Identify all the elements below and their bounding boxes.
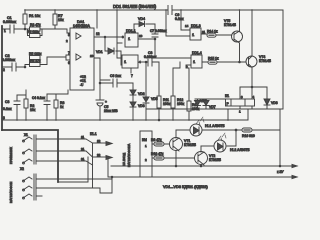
diode VD8 xyxy=(264,87,278,109)
svg-text:КТ814Б: КТ814Б xyxy=(224,23,237,27)
svg-text:VD7: VD7 xyxy=(209,105,216,109)
diode VD7 xyxy=(203,99,216,109)
relay K1 xyxy=(225,94,255,114)
svg-text:C7 0.068мк: C7 0.068мк xyxy=(150,29,167,33)
svg-text:10к: 10к xyxy=(30,108,36,112)
svg-text:DD1.4: DD1.4 xyxy=(192,51,202,55)
svg-text:C3: C3 xyxy=(5,100,9,104)
svg-text:0.1мк: 0.1мк xyxy=(3,107,12,111)
svg-text:VD2: VD2 xyxy=(138,92,145,96)
svg-text:1: 1 xyxy=(4,29,6,33)
svg-text:+: + xyxy=(105,100,107,104)
gate DD1.4 xyxy=(186,51,202,69)
svg-text:к ЗУ: к ЗУ xyxy=(277,170,284,174)
svg-text:VD8: VD8 xyxy=(271,101,278,105)
svg-text:0.1мк: 0.1мк xyxy=(175,17,184,21)
wire relay bottom rail xyxy=(146,10,283,109)
gate DD1.1 xyxy=(122,29,143,47)
capacitor C4 xyxy=(32,94,50,120)
svg-text:VD4: VD4 xyxy=(138,17,145,21)
transistor VT4 xyxy=(246,10,272,87)
resistor R5 xyxy=(29,52,42,65)
capacitor C8 xyxy=(144,51,159,66)
svg-text:R6 47к: R6 47к xyxy=(30,59,41,63)
connector X1 bar xyxy=(34,135,36,164)
diode VD1 xyxy=(96,37,122,65)
resistor R15 xyxy=(202,57,249,65)
resistor R16 xyxy=(242,109,280,138)
gate DD1.3 xyxy=(166,10,205,40)
svg-text:10: 10 xyxy=(90,54,94,58)
svg-text:ПРИЕМНИК: ПРИЕМНИК xyxy=(9,147,13,164)
relay contacts K1.1 xyxy=(81,132,97,165)
node E xyxy=(99,82,101,84)
svg-text:HL1 АЛ307Б: HL1 АЛ307Б xyxy=(205,124,225,128)
resistor R1 xyxy=(23,10,41,29)
wire DD1.2 output xyxy=(138,61,147,63)
wire DD1.4 input feed xyxy=(155,57,186,59)
svg-text:11: 11 xyxy=(202,30,205,34)
svg-text:R4 100к: R4 100к xyxy=(27,30,40,34)
LED HL1 xyxy=(190,117,225,136)
jack X1 plug 1 xyxy=(23,137,33,142)
label tape input vertical xyxy=(122,144,131,167)
svg-text:11: 11 xyxy=(81,135,84,139)
resistor R3 xyxy=(25,23,43,31)
diode VD5 xyxy=(143,61,158,120)
svg-text:К1.1: К1.1 xyxy=(90,132,97,136)
resistor R14 xyxy=(201,30,232,38)
wire C6 to diode chain xyxy=(132,83,134,88)
svg-text:Х1: Х1 xyxy=(24,133,28,137)
svg-text:14: 14 xyxy=(185,24,189,28)
jack X2 plug 3 xyxy=(23,194,33,199)
node junction dots rail xyxy=(24,9,253,11)
connector X2 bar xyxy=(34,174,36,200)
svg-text:0.068мк: 0.068мк xyxy=(3,20,16,24)
wire top supply rail xyxy=(25,9,283,11)
diode VD2 xyxy=(130,88,145,100)
arrow output 2 xyxy=(292,175,297,178)
node F xyxy=(111,176,113,178)
capacitor C6 xyxy=(100,74,133,87)
transistor VT2 xyxy=(195,146,222,166)
wire DA1 output xyxy=(94,36,122,38)
svg-text:КТ315Б: КТ315Б xyxy=(209,158,222,162)
wire DA1 pin10 to C6 xyxy=(94,58,110,83)
transistor VT1 xyxy=(170,130,197,166)
svg-text:HL2 АЛ307Б: HL2 АЛ307Б xyxy=(230,148,250,152)
svg-text:22: 22 xyxy=(97,153,101,157)
LED HL2 xyxy=(214,133,250,152)
wire DA1 top to rail xyxy=(96,10,98,28)
wire arrow 12 xyxy=(93,139,113,146)
wire VT4 to relay xyxy=(240,87,267,99)
wire X2 shield return xyxy=(36,143,112,193)
capacitor C5 xyxy=(96,83,118,120)
resistor R12 xyxy=(171,62,185,120)
wire jack6 stub xyxy=(36,195,42,197)
svg-text:VD1...VD8 КД521 (КД522): VD1...VD8 КД521 (КД522) xyxy=(163,185,209,189)
svg-text:ВМ: ВМ xyxy=(142,138,147,142)
svg-text:R16 910: R16 910 xyxy=(242,134,255,138)
svg-text:100к: 100к xyxy=(177,102,185,106)
svg-text:DD1.3: DD1.3 xyxy=(191,24,201,28)
capacitor C2 xyxy=(2,54,25,72)
svg-text:Х2: Х2 xyxy=(20,167,24,171)
svg-text:100к: 100к xyxy=(163,102,171,106)
svg-text:КТ315Б: КТ315Б xyxy=(184,143,197,147)
wire HL1 row xyxy=(176,129,242,131)
wire rail drop to gates xyxy=(117,10,122,58)
wire DD1.1 output xyxy=(138,38,155,40)
svg-text:1к: 1к xyxy=(60,105,64,109)
svg-text:22мк 16В: 22мк 16В xyxy=(104,109,118,113)
node B xyxy=(24,66,26,68)
resistor R7 xyxy=(53,10,64,29)
svg-text:12: 12 xyxy=(97,139,101,143)
node C xyxy=(104,36,106,38)
svg-text:R1 10к: R1 10к xyxy=(29,14,41,18)
wire thick ground run xyxy=(2,130,58,182)
svg-text:R3 47к: R3 47к xyxy=(30,23,41,27)
wire relay to bus xyxy=(228,109,248,120)
jack X1 plug 2 xyxy=(23,149,33,154)
svg-text:МАГНИТОФОНА: МАГНИТОФОНА xyxy=(127,144,131,167)
svg-text:C4 0.1мк: C4 0.1мк xyxy=(32,96,46,100)
svg-text:31: 31 xyxy=(81,157,85,161)
resistor R11 xyxy=(157,62,171,121)
wire VT2 collector to HL2 xyxy=(201,145,214,147)
svg-text:КТ814Б: КТ814Б xyxy=(259,59,272,63)
gate DD1.2 xyxy=(122,55,141,78)
svg-text:R14 1к: R14 1к xyxy=(207,30,218,34)
resistor R13 xyxy=(186,68,200,120)
resistor R9 xyxy=(151,138,170,146)
svg-text:DD1 561ЛЕ5 (564ЛЕ5): DD1 561ЛЕ5 (564ЛЕ5) xyxy=(113,4,157,9)
resistor R2 xyxy=(17,90,36,120)
svg-text:R10 47к: R10 47к xyxy=(151,152,164,156)
svg-text:21: 21 xyxy=(81,147,85,151)
node junction dots bus xyxy=(16,119,229,121)
svg-text:7: 7 xyxy=(131,74,133,78)
svg-text:3: 3 xyxy=(3,116,5,120)
connector X3 box xyxy=(140,131,153,177)
svg-text:12: 12 xyxy=(96,32,100,36)
wire X2 return to contact pin xyxy=(36,157,112,182)
wire emitter bottom rail xyxy=(111,165,297,167)
wire X1 to contacts xyxy=(36,139,86,161)
jack X2 plug 2 xyxy=(23,186,33,191)
svg-text:НА ВХОД: НА ВХОД xyxy=(122,153,126,166)
resistor R8 xyxy=(47,90,68,120)
diode VD6 xyxy=(195,99,226,109)
svg-text:R9 47к: R9 47к xyxy=(151,138,162,142)
resistor R6 xyxy=(25,59,47,67)
jack X1 plug 3 xyxy=(23,159,33,164)
capacitor C3 xyxy=(3,95,20,120)
wire arrow 22 xyxy=(93,153,113,160)
node D xyxy=(154,38,156,40)
wire to DA1 pins 6 7 xyxy=(47,55,72,65)
svg-text:0.068мк: 0.068мк xyxy=(2,58,15,62)
capacitor C1 xyxy=(3,16,25,33)
op-amp DA1 xyxy=(70,20,94,90)
svg-text:10к: 10к xyxy=(58,18,64,22)
svg-text:R5 100к: R5 100к xyxy=(29,52,42,56)
wire HL2 tie xyxy=(227,130,236,146)
node VT5 collector to VT4 base xyxy=(239,61,241,63)
svg-text:К1: К1 xyxy=(225,94,229,98)
svg-text:C6 1мк: C6 1мк xyxy=(110,74,121,78)
capacitor C7 xyxy=(150,24,167,58)
wire right feed down xyxy=(279,130,281,166)
svg-text:R15 1к: R15 1к xyxy=(208,57,219,61)
svg-text:МАГНИТОФОН: МАГНИТОФОН xyxy=(9,182,13,203)
svg-text:10: 10 xyxy=(139,34,143,38)
svg-text:140УД20А: 140УД20А xyxy=(73,24,91,28)
capacitor C9 xyxy=(168,6,172,15)
diode VD3 xyxy=(130,100,145,120)
resistor R10 xyxy=(151,152,195,160)
wire charger line xyxy=(108,158,297,177)
node A xyxy=(24,28,26,30)
jack X2 plug 1 xyxy=(23,177,33,182)
svg-text:VD3: VD3 xyxy=(138,104,145,108)
svg-text:2: 2 xyxy=(3,68,5,72)
resistor R4 xyxy=(27,29,42,38)
arrow output 1 xyxy=(292,164,297,167)
diode VD4 xyxy=(134,17,155,33)
wire left border bus xyxy=(1,26,3,130)
label C9 xyxy=(175,13,184,21)
wire main lower bus xyxy=(3,119,248,121)
svg-text:VD1: VD1 xyxy=(96,50,103,54)
transistor VT5 xyxy=(224,10,243,62)
wire to DA1 pin 3 xyxy=(43,29,72,33)
